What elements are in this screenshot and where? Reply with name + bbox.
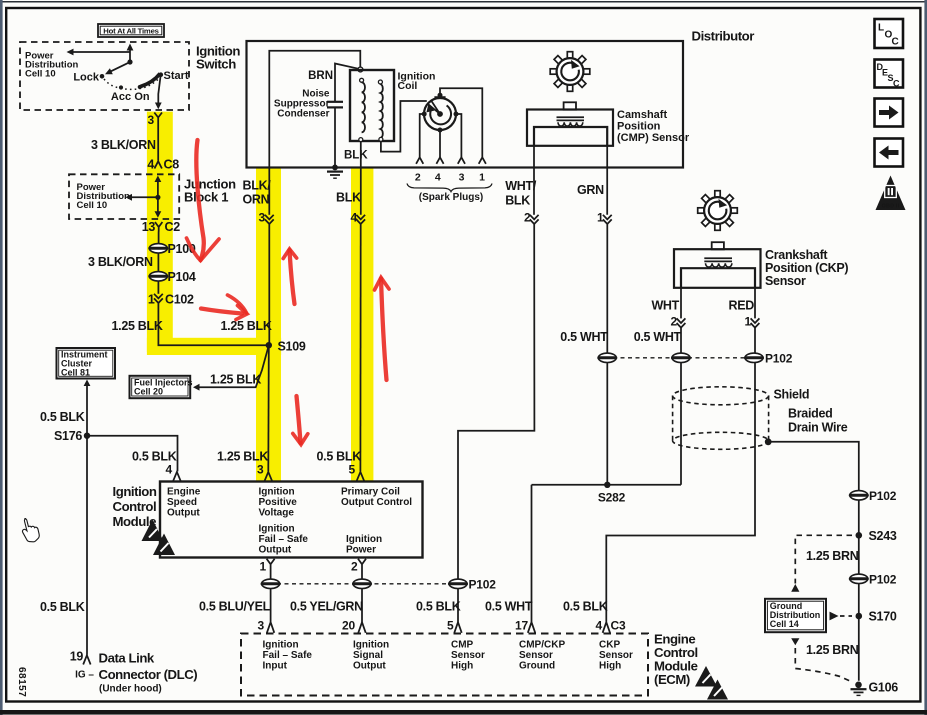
svg-text:GRN: GRN — [577, 183, 604, 197]
wire label BLK/ORN — [243, 179, 272, 207]
CMP sensor body — [527, 110, 613, 146]
svg-text:C: C — [893, 79, 900, 89]
wire rotor to spark plug 2 — [416, 114, 424, 164]
red annotation arrow down left (over junction block) — [187, 140, 220, 261]
svg-text:0.5 BLK: 0.5 BLK — [40, 410, 85, 424]
svg-text:3: 3 — [148, 113, 155, 127]
svg-text:Switch: Switch — [196, 57, 236, 72]
svg-text:CMP/CKP: CMP/CKP — [519, 640, 565, 651]
label Distributor — [692, 29, 755, 44]
connector 1 on CMP GRN wire — [597, 211, 612, 225]
connector P104 — [148, 270, 196, 284]
svg-text:Ignition: Ignition — [353, 640, 389, 651]
outer page border left (blue strip) — [0, 0, 3, 715]
svg-text:3: 3 — [258, 619, 265, 633]
wire label 1.25 BRN — [806, 643, 859, 657]
svg-text:C3: C3 — [611, 619, 626, 633]
red annotation arrow right (1.25 BLK) — [201, 295, 247, 320]
CMP sensor neck — [564, 102, 576, 109]
splice S282 — [532, 482, 682, 505]
wire label 1.25 BLK — [217, 450, 268, 464]
svg-text:Fail – Safe: Fail – Safe — [263, 650, 313, 661]
label Camshaft Position (CMP) Sensor — [617, 109, 690, 144]
svg-text:P102: P102 — [869, 489, 897, 503]
ignition switch dashed box — [20, 42, 189, 110]
wire — [157, 281, 159, 294]
wire arrow up inside junction block — [155, 176, 162, 198]
ECM pin 4 C3 — [596, 619, 626, 633]
wire label 1.25 BLK — [221, 319, 272, 333]
svg-text:High: High — [451, 661, 473, 672]
braided drain wire node — [765, 438, 772, 445]
wire 1.25 BLK S109 to fuel injectors — [193, 345, 269, 390]
ECM pin 5 — [447, 619, 462, 633]
svg-text:Ignition: Ignition — [346, 534, 382, 545]
detent dotted arc — [104, 78, 160, 89]
wire highlight (yellow) band on BLK wire to ICM pin 5 — [351, 167, 373, 482]
dashed link ground distribution to G106 — [791, 638, 851, 681]
svg-text:BRN: BRN — [308, 70, 333, 82]
svg-text:20: 20 — [342, 619, 355, 633]
svg-text:BLK/: BLK/ — [243, 179, 272, 193]
svg-text:2: 2 — [415, 172, 421, 184]
svg-text:68157: 68157 — [16, 667, 27, 697]
wire ignition feed to coil B+ — [269, 51, 360, 168]
connector C8 — [147, 158, 179, 172]
svg-text:13: 13 — [142, 220, 156, 234]
svg-text:3: 3 — [259, 211, 266, 225]
wire label 0.5 WHT — [560, 330, 608, 344]
svg-text:Voltage: Voltage — [259, 508, 295, 519]
svg-text:5: 5 — [447, 619, 454, 633]
connector 3 on BLK/ORN wire — [259, 211, 274, 225]
capacitor (noise suppressor condenser) — [327, 64, 358, 167]
ICM pin 2 — [351, 559, 366, 574]
splice S170 — [856, 610, 897, 624]
svg-text:0.5 BLK: 0.5 BLK — [317, 450, 362, 464]
ICM pin function labels — [167, 487, 201, 519]
svg-text:19: 19 — [70, 650, 84, 664]
braided drain wire — [768, 442, 859, 681]
svg-text:3 BLK/ORN: 3 BLK/ORN — [88, 255, 153, 269]
wire label 0.5 BLK — [40, 600, 85, 614]
svg-text:1.25 BLK: 1.25 BLK — [210, 373, 261, 387]
red annotation arrow up (BLK wire) — [375, 278, 390, 381]
svg-text:Acc: Acc — [111, 91, 131, 103]
figure number 68157 — [16, 667, 27, 697]
svg-text:Coil: Coil — [398, 80, 418, 92]
connector P100 — [148, 242, 196, 256]
red annotation arrow down (into ICM) — [293, 396, 308, 445]
svg-text:Position: Position — [617, 121, 661, 133]
wire label 0.5 BLK — [132, 450, 177, 464]
wire label 0.5 BLU/YEL — [199, 600, 271, 614]
svg-text:Input: Input — [263, 661, 288, 672]
wire label 1.25 BLK — [210, 373, 261, 387]
ECM pin function labels — [263, 640, 313, 672]
switch lever arrow to Lock — [105, 62, 130, 74]
svg-text:Position (CKP): Position (CKP) — [765, 261, 848, 275]
wire label 3 BLK/ORN — [91, 138, 156, 152]
coil secondary winding — [378, 80, 383, 141]
CKP sensor body — [674, 249, 761, 288]
DLC pin 19 — [70, 650, 91, 665]
svg-text:4: 4 — [596, 619, 603, 633]
svg-text:0.5 WHT: 0.5 WHT — [485, 600, 533, 614]
node 3 (ignition switch output) — [148, 113, 162, 161]
svg-text:Output: Output — [353, 661, 386, 672]
wire coil secondary to rotor — [381, 101, 427, 152]
ICM pin 3 — [257, 463, 272, 481]
wire label 3 BLK/ORN — [88, 255, 153, 269]
distributor rotor — [422, 93, 459, 133]
svg-text:S176: S176 — [54, 429, 82, 443]
svg-text:Sensor: Sensor — [599, 650, 633, 661]
svg-text:Positive: Positive — [259, 497, 298, 508]
wire label BRN — [308, 70, 333, 82]
label Data Link Connector (DLC) — [99, 651, 198, 695]
svg-text:(Under hood): (Under hood) — [99, 684, 162, 695]
ignition coil box — [350, 70, 394, 141]
ECM pin 3 — [258, 619, 275, 633]
svg-text:Crankshaft: Crankshaft — [765, 248, 828, 262]
svg-text:CKP: CKP — [599, 640, 620, 651]
Fuel Injectors Cell 20 box — [130, 376, 193, 398]
label Junction Block 1 — [184, 177, 236, 205]
svg-text:Output: Output — [259, 545, 292, 556]
svg-text:0.5 YEL/GRN: 0.5 YEL/GRN — [290, 600, 363, 614]
splice S109 — [266, 340, 306, 354]
label Crankshaft Position (CKP) Sensor — [765, 248, 848, 288]
label Braided Drain Wire — [788, 407, 848, 435]
svg-text:0.5 BLK: 0.5 BLK — [563, 600, 608, 614]
splice S176 — [54, 429, 90, 443]
svg-text:Engine: Engine — [167, 487, 201, 498]
svg-text:L: L — [878, 23, 884, 34]
coil B+ terminal — [358, 67, 363, 72]
wire BLK coil to ICM pin 5 — [359, 141, 361, 471]
wire label 0.5 BLK — [416, 600, 461, 614]
svg-text:Ignition: Ignition — [113, 484, 157, 499]
svg-text:G106: G106 — [869, 681, 899, 695]
DESC button — [875, 60, 904, 89]
svg-text:C8: C8 — [164, 158, 180, 172]
svg-text:0.5 BLK: 0.5 BLK — [40, 600, 85, 614]
label Power Distribution Cell 10 (junction block) — [77, 182, 130, 211]
wire arrow down inside junction block — [155, 197, 162, 218]
svg-text:4: 4 — [166, 463, 173, 477]
label IG - — [75, 670, 94, 681]
svg-text:Primary Coil: Primary Coil — [341, 487, 400, 498]
ground (condenser) — [327, 172, 343, 179]
wire rotor to spark plug 1 — [440, 88, 486, 164]
svg-text:1: 1 — [479, 172, 485, 184]
svg-text:OBD II: OBD II — [882, 204, 900, 210]
svg-text:0.5 BLK: 0.5 BLK — [416, 600, 461, 614]
ignition control module box — [160, 482, 423, 558]
junction block dashed box (Power Distribution Cell 10) — [69, 174, 179, 219]
svg-text:High: High — [599, 661, 621, 672]
wire label 0.5 BLK — [563, 600, 608, 614]
svg-text:0.5 WHT: 0.5 WHT — [634, 330, 682, 344]
wire label 0.5 WHT — [485, 600, 533, 614]
svg-text:(Spark Plugs): (Spark Plugs) — [419, 192, 483, 203]
ESD symbol (ECM) — [695, 666, 728, 700]
svg-text:Data Link: Data Link — [99, 651, 155, 666]
ESD symbol (ICM) — [142, 520, 176, 556]
outer page border top — [0, 1, 927, 3]
wire rotor to spark plug 3 — [456, 114, 465, 164]
wire highlight (yellow) band on BLK/ORN and 1.25 BLK wire to ICM pin 3 — [256, 167, 281, 482]
dashed link ground distribution to S170 — [830, 612, 853, 621]
svg-text:0.5 BLK: 0.5 BLK — [132, 450, 177, 464]
svg-text:Power: Power — [346, 545, 376, 556]
svg-text:Braided: Braided — [788, 407, 832, 421]
svg-text:Ground: Ground — [519, 661, 555, 672]
svg-text:Distributor: Distributor — [692, 29, 755, 44]
svg-text:S170: S170 — [869, 610, 897, 624]
coil primary winding — [359, 78, 365, 141]
svg-text:S243: S243 — [869, 529, 897, 543]
svg-text:P102: P102 — [765, 352, 793, 366]
red annotation arrow up (BLK/ORN wire) — [283, 249, 296, 304]
label Engine Control Module (ECM) — [654, 632, 698, 688]
splice S243 — [856, 529, 897, 543]
crankshaft position gear — [698, 191, 738, 231]
svg-text:Cell 10: Cell 10 — [25, 69, 56, 80]
wire — [157, 253, 159, 272]
Instrument Cluster Cell 81 box — [57, 348, 116, 379]
wire label GRN — [577, 183, 604, 197]
svg-text:C: C — [892, 37, 899, 48]
wire arrow left inside junction block — [125, 194, 158, 201]
ICM pin 1 — [260, 559, 275, 574]
svg-text:C102: C102 — [165, 293, 194, 307]
label Ignition Switch — [196, 44, 240, 72]
svg-text:BLK: BLK — [344, 150, 368, 162]
connector 1 on CKP RED wire — [745, 315, 760, 329]
wire highlight (yellow) horizontal band to S109 — [147, 338, 281, 355]
Start contact — [159, 70, 189, 82]
svg-text:0.5 BLU/YEL: 0.5 BLU/YEL — [199, 600, 271, 614]
svg-text:S109: S109 — [278, 340, 306, 354]
svg-text:Sensor: Sensor — [451, 650, 485, 661]
svg-text:1: 1 — [597, 211, 604, 225]
engine control module dashed box — [241, 634, 648, 696]
wire label WHT/BLK — [505, 179, 537, 208]
svg-text:0.5 WHT: 0.5 WHT — [560, 330, 608, 344]
svg-text:1: 1 — [745, 315, 752, 329]
label Ignition Control Module — [113, 484, 157, 529]
connector C102 — [148, 293, 194, 307]
wire label 0.5 BLK — [40, 410, 85, 424]
outer page border right (blue strip) — [924, 0, 927, 715]
CKP sensor neck — [712, 242, 724, 249]
svg-text:BLK: BLK — [336, 191, 361, 205]
svg-text:Output: Output — [167, 508, 200, 519]
wire ICM pin 2 to ECM pin 20 — [361, 571, 363, 622]
shield (dashed cylinder) — [673, 387, 769, 450]
connector 2 on CMP WHT/BLK wire — [524, 211, 539, 225]
wire highlight (yellow) vertical band on 3 BLK/ORN from ignition switch — [147, 112, 173, 352]
svg-text:P104: P104 — [168, 270, 196, 284]
label Shield — [774, 388, 810, 402]
ignition switch pivot node — [127, 59, 132, 64]
camshaft position gear — [550, 52, 590, 92]
mouse cursor — [22, 519, 39, 542]
svg-text:Hot At All Times: Hot At All Times — [103, 27, 158, 36]
svg-text:4: 4 — [351, 211, 358, 225]
wire S176 to DLC — [86, 436, 88, 655]
svg-text:Shield: Shield — [774, 388, 810, 402]
connector row P102 (sensors) — [597, 352, 792, 366]
label Power Distribution Cell 10 (ignition switch) — [25, 51, 78, 80]
outer page border bottom (black band) — [0, 710, 927, 715]
condenser ground node — [332, 165, 338, 171]
wire label 1.25 BLK — [112, 319, 163, 333]
svg-text:Cell 20: Cell 20 — [134, 387, 163, 397]
svg-text:Ignition: Ignition — [259, 524, 295, 535]
wire BLK/ORN distributor to S109 — [268, 168, 270, 346]
ECM pin 17 — [515, 619, 535, 633]
svg-text:2: 2 — [671, 315, 678, 329]
svg-text:17: 17 — [515, 619, 528, 633]
ICM pin 4 — [166, 463, 181, 481]
ECM pin 20 — [342, 619, 366, 633]
wire label 0.5 WHT — [634, 330, 682, 344]
OBD II warning triangle — [876, 176, 906, 211]
svg-text:1: 1 — [148, 293, 155, 307]
On contact — [134, 85, 150, 103]
spark plug numbers 2 4 3 1 — [415, 172, 485, 184]
svg-text:5: 5 — [349, 463, 356, 477]
svg-text:Block 1: Block 1 — [184, 190, 228, 205]
wire label RED — [729, 299, 755, 313]
wire arrow up to Hot At All Times — [127, 44, 134, 63]
svg-text:1.25 BLK: 1.25 BLK — [217, 450, 268, 464]
svg-text:RED: RED — [729, 299, 755, 313]
wire CKP WHT to S282 — [680, 288, 682, 485]
connector C2 — [142, 220, 181, 234]
svg-text:ORN: ORN — [243, 193, 270, 207]
svg-text:(ECM): (ECM) — [654, 672, 690, 687]
svg-text:Lock: Lock — [73, 71, 100, 83]
wire — [158, 232, 160, 244]
svg-text:Sensor: Sensor — [765, 274, 806, 288]
connector P102 (ground path) — [849, 572, 897, 586]
wire label WHT — [651, 299, 679, 313]
svg-text:Output Control: Output Control — [341, 497, 412, 508]
svg-text:Cell 81: Cell 81 — [61, 368, 90, 378]
junction block node — [155, 195, 160, 200]
svg-text:S282: S282 — [598, 491, 626, 505]
label Noise Suppressor Condenser — [274, 89, 330, 120]
svg-text:On: On — [134, 91, 150, 103]
Acc contact — [111, 85, 131, 103]
connector P102 (drain wire) — [849, 489, 897, 503]
wire label BLK (inside distributor) — [344, 150, 368, 162]
wire GRN CMP to S282 — [606, 146, 608, 485]
wire arrow left to Power Distribution — [67, 49, 131, 56]
wire S176 to ICM pin 4 — [87, 436, 178, 472]
connector row P102 (ICM to ECM) — [261, 578, 497, 592]
svg-text:4: 4 — [147, 158, 154, 172]
spark plugs brace — [407, 184, 492, 192]
svg-text:1.25 BRN: 1.25 BRN — [806, 643, 859, 657]
svg-text:IG –: IG – — [75, 670, 94, 681]
svg-text:Drain Wire: Drain Wire — [788, 421, 848, 435]
svg-text:3: 3 — [257, 463, 264, 477]
distributor box — [247, 41, 684, 168]
svg-text:2: 2 — [524, 211, 531, 225]
svg-text:WHT: WHT — [651, 299, 679, 313]
wire from Start down — [155, 77, 162, 110]
svg-text:Control: Control — [113, 499, 157, 514]
wire label 0.5 BLK — [317, 450, 362, 464]
svg-text:3: 3 — [459, 172, 465, 184]
previous page button (left arrow) — [875, 139, 904, 167]
svg-text:WHT/: WHT/ — [505, 179, 537, 193]
Hot At All Times box — [98, 24, 164, 37]
ground G106 — [851, 681, 899, 696]
svg-text:Cell 14: Cell 14 — [770, 619, 799, 629]
svg-text:C2: C2 — [165, 220, 181, 234]
svg-text:CMP: CMP — [451, 640, 474, 651]
Ground Distribution Cell 14 box — [765, 599, 826, 632]
wire arrow up to instrument cluster — [84, 380, 91, 436]
svg-text:Signal: Signal — [353, 650, 383, 661]
svg-text:(CMP) Sensor: (CMP) Sensor — [617, 132, 690, 144]
LOC button — [875, 19, 904, 48]
svg-text:BLK: BLK — [505, 194, 530, 208]
label (Spark Plugs) — [419, 192, 483, 203]
Lock contact — [73, 71, 104, 83]
svg-text:1: 1 — [260, 560, 267, 574]
wire rotor to spark plug 4 — [436, 131, 443, 164]
svg-text:2: 2 — [351, 560, 358, 574]
wire CMP high to ECM pin 5 — [458, 146, 534, 622]
ICM pin 5 — [349, 463, 365, 481]
connector 2 on CKP WHT wire — [671, 315, 686, 329]
svg-text:P102: P102 — [469, 578, 497, 592]
svg-text:Start: Start — [164, 70, 189, 82]
svg-text:Fail – Safe: Fail – Safe — [259, 534, 309, 545]
label Ignition Coil — [398, 71, 436, 93]
next page button (right arrow) — [875, 99, 904, 127]
wire label 0.5 YEL/GRN — [290, 600, 363, 614]
wire label BLK — [336, 191, 361, 205]
svg-text:Connector (DLC): Connector (DLC) — [99, 667, 198, 682]
svg-text:1.25 BLK: 1.25 BLK — [221, 319, 272, 333]
svg-text:Sensor: Sensor — [519, 650, 553, 661]
wire ICM pin 1 to ECM pin 3 — [270, 571, 272, 622]
wire 1.25 BLK down and right to S109 — [158, 303, 268, 345]
svg-text:1.25 BLK: 1.25 BLK — [112, 319, 163, 333]
wire CKP RED to ECM pin 4 — [606, 288, 755, 622]
svg-text:Ignition: Ignition — [259, 487, 295, 498]
svg-text:3 BLK/ORN: 3 BLK/ORN — [91, 138, 156, 152]
dashed link S243 to ground distribution — [791, 535, 852, 592]
svg-text:1.25 BRN: 1.25 BRN — [806, 549, 859, 563]
svg-text:Camshaft: Camshaft — [617, 109, 667, 121]
svg-text:Condenser: Condenser — [277, 109, 329, 120]
svg-text:Speed: Speed — [167, 497, 197, 508]
svg-text:P102: P102 — [869, 572, 897, 586]
connector 4 on BLK wire — [351, 211, 366, 225]
svg-text:4: 4 — [435, 172, 441, 184]
switch actuator heavy arc — [141, 74, 161, 87]
svg-text:Ignition: Ignition — [263, 640, 299, 651]
